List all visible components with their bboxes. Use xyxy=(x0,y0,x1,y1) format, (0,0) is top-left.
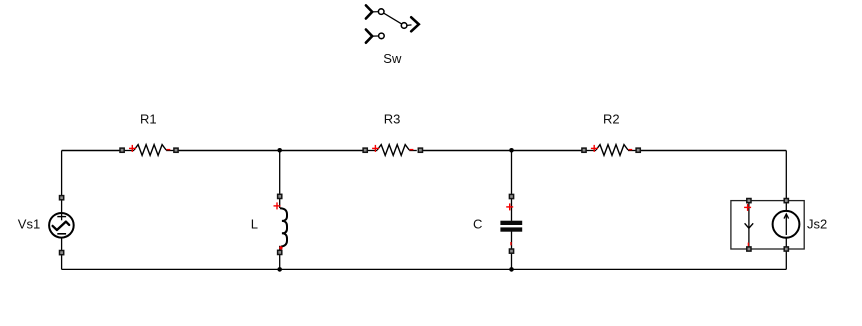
svg-text:L: L xyxy=(251,217,258,232)
svg-text:C: C xyxy=(473,217,482,232)
svg-text:Vs1: Vs1 xyxy=(18,217,40,232)
svg-text:Sw: Sw xyxy=(383,51,402,66)
svg-text:Js2: Js2 xyxy=(807,217,827,232)
svg-text:R3: R3 xyxy=(384,111,401,126)
svg-text:R2: R2 xyxy=(603,111,620,126)
svg-text:R1: R1 xyxy=(140,111,157,126)
